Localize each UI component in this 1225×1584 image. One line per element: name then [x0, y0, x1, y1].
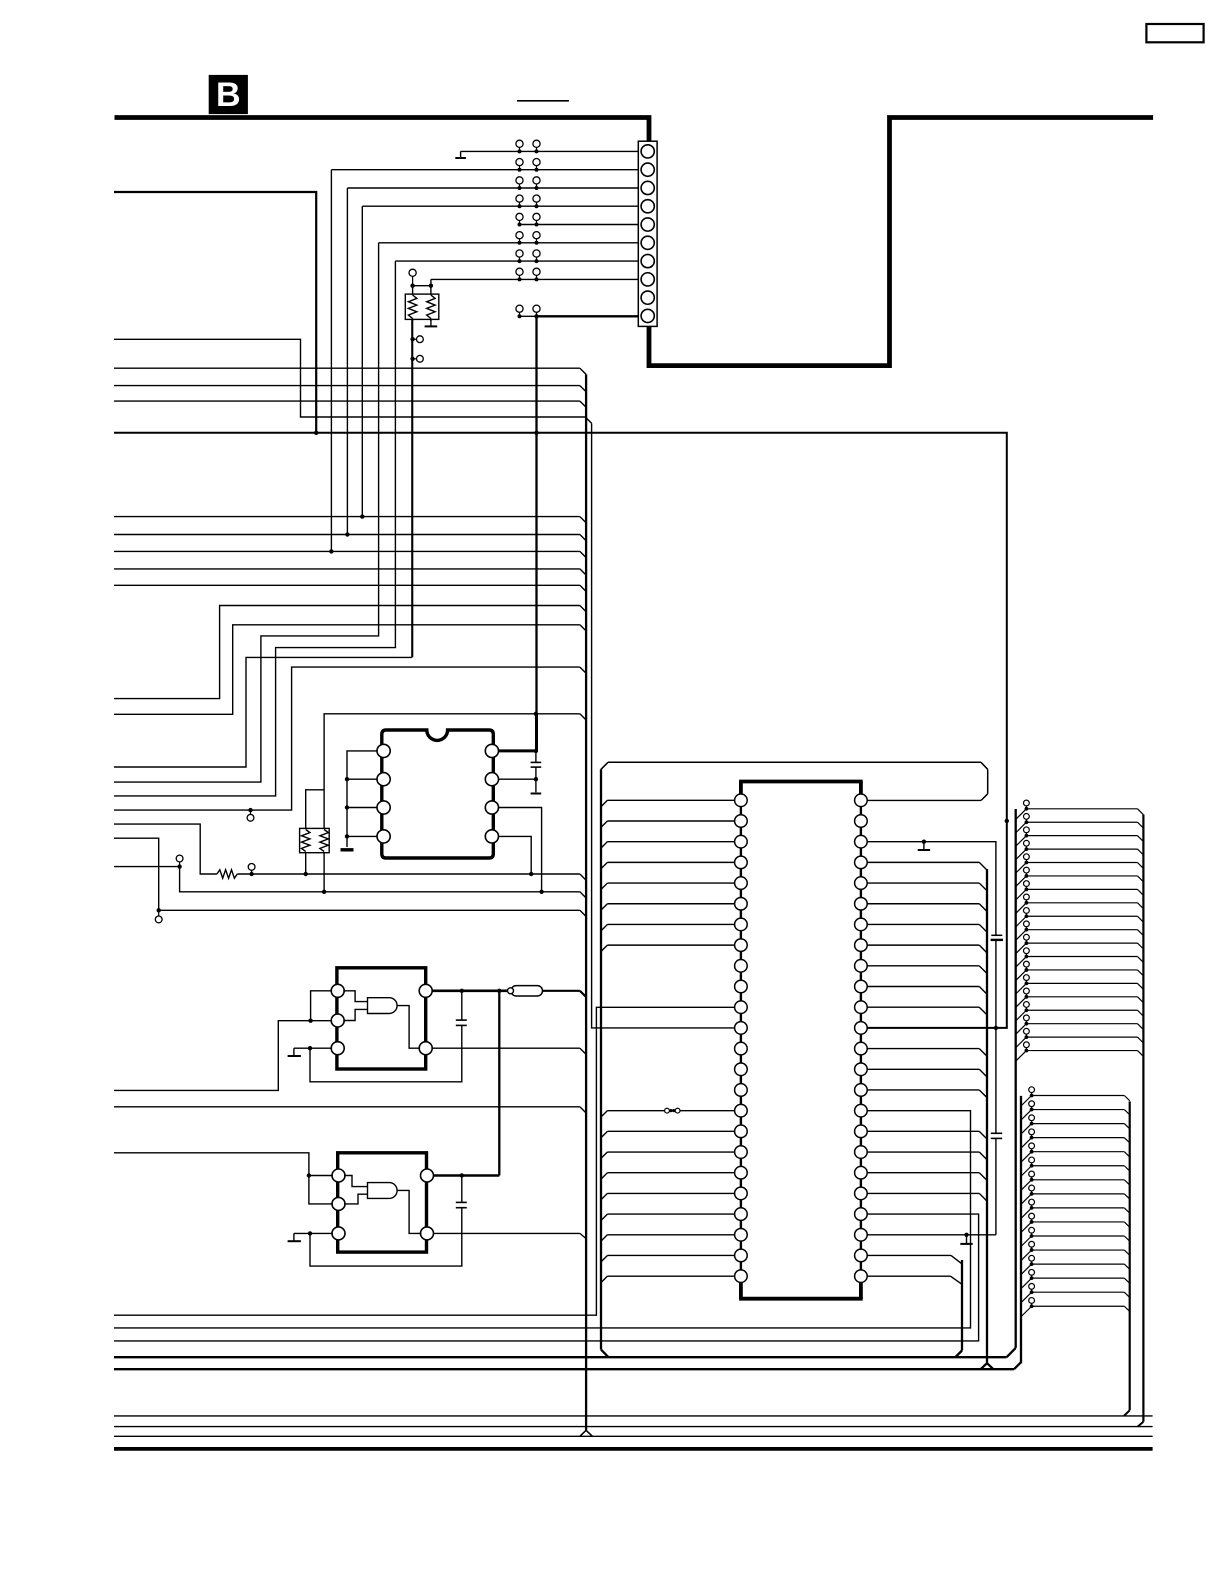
junction dot medium wire: [314, 431, 318, 435]
wire row 5 to CN1: [520, 224, 639, 226]
connector CN1 pin 2: [641, 163, 654, 176]
wire L8 bevel: [580, 569, 586, 575]
wire V536 to C1: [535, 751, 537, 763]
RA link bar: [413, 285, 431, 287]
ic U4 pin 38: [855, 1001, 868, 1014]
wire L1 bevel: [585, 417, 591, 423]
wire U4 pin7 feed: [601, 924, 735, 930]
resistor RA-2 lead2: [430, 319, 432, 322]
bus bottom B: [114, 1368, 1014, 1370]
header JP1 pin 7: [1016, 881, 1144, 900]
header JP2 pin 11: [1021, 1227, 1130, 1246]
junction dot U2 feed: [308, 1019, 312, 1023]
ic U4 pin 2: [735, 815, 748, 828]
header JP2 pin 13: [1021, 1255, 1130, 1274]
ic U4 pin 1: [735, 794, 748, 807]
junction dot LF tp: [157, 908, 161, 912]
ic U4 pin 35: [855, 1063, 868, 1076]
test point pair row 3: [516, 177, 540, 190]
wire FB1 out thick: [543, 990, 580, 992]
ic U4 pin 33: [855, 1104, 868, 1117]
wire L2: [114, 367, 580, 369]
wire LA bevel: [580, 606, 586, 612]
ic U4 pin 22: [735, 1228, 748, 1241]
connector CN1 body: [638, 141, 657, 326]
header JP1 pin 6: [1016, 867, 1144, 886]
bus trunk2 pin12L net: [592, 423, 735, 1028]
wire V536 upper: [535, 316, 537, 714]
op-amp U1 pin 2: [377, 773, 390, 786]
resistor RA-2: [427, 295, 435, 319]
wire C5 lower: [995, 1138, 997, 1234]
junction dot U2 pin3: [308, 1046, 312, 1050]
wire U4 pin29: [867, 1193, 987, 1201]
resonator X1 symbol: [368, 998, 398, 1014]
wire C4 lower: [995, 1028, 997, 1133]
oscillator U2 pin4: [419, 1042, 432, 1055]
wire L3 bevel: [580, 386, 586, 392]
ic U4 pin 30: [855, 1166, 868, 1179]
wire L5 bevel: [580, 517, 586, 523]
bus bottom A: [114, 1356, 1007, 1358]
wire U3 pin2 bracket: [309, 1176, 333, 1204]
ic U4 pin 44: [855, 877, 868, 890]
ic U4 pin 3: [735, 835, 748, 848]
ic U4 bottom stub left: [739, 1282, 743, 1298]
wire LC bevel: [580, 667, 586, 673]
wire U4 pin16 feed: [601, 1111, 735, 1117]
ic U4 bottom stub right: [859, 1282, 863, 1298]
wire RA leg join: [411, 319, 413, 657]
wire RC right leg down: [323, 853, 325, 892]
header JP1 pin 1: [1016, 800, 1144, 819]
header JP1 pin 5: [1016, 854, 1144, 873]
oscillator U2 body: [337, 968, 426, 1069]
ic U4 pin 26: [855, 1249, 868, 1262]
bus outline top: [608, 761, 981, 763]
bottom line 3 chevron: [580, 1430, 593, 1436]
ic U4 pin 47: [855, 815, 868, 828]
oscillator U3 pin3: [332, 1227, 345, 1240]
wire U1 pin3 stub: [347, 807, 377, 809]
wire U4 pin44: [867, 883, 987, 891]
wire U3 pin3 stub: [294, 1232, 333, 1234]
wire U2 pin1 to X1: [343, 991, 367, 1002]
wire row 6 to CN1: [379, 242, 639, 244]
wire C2 up: [461, 991, 463, 1020]
wire U3 pin4 bevel: [580, 1233, 587, 1239]
op-amp U1 pin 4: [377, 830, 390, 843]
wire U4 pin27: [867, 1234, 996, 1236]
op-amp U1 pin 3: [377, 801, 390, 814]
wire LC step: [114, 667, 580, 810]
test point pair row 7: [516, 250, 540, 263]
connector CN1 pin 1: [641, 145, 654, 158]
wire U4 pin39: [867, 987, 987, 995]
wire LB bevel: [580, 625, 586, 631]
wire L5: [114, 516, 580, 518]
ic U4 pin 15: [735, 1084, 748, 1097]
connector CN1 pin 4: [641, 200, 654, 213]
wire U4 pin4 feed: [601, 862, 735, 868]
bus trunk3 left edge: [600, 769, 602, 1349]
wire U4 pin20 feed: [601, 1193, 735, 1199]
bus trunk g2-right: [1129, 1101, 1131, 1410]
wire L8: [114, 568, 580, 570]
wire row 1 to CN1: [461, 150, 639, 152]
test point pair row 6: [516, 232, 540, 245]
capacitor C2: [456, 1020, 467, 1025]
test point pair row 5: [516, 213, 540, 226]
wire U4 pin24 feed: [601, 1276, 735, 1282]
wire U4 pin3 feed: [601, 842, 735, 848]
ic U4 pin 10: [735, 980, 748, 993]
wire U4 pin43: [867, 904, 987, 912]
wire U3 pin1 to X2: [344, 1176, 367, 1187]
wire C3 up: [461, 1176, 463, 1203]
header JP2 pin 2: [1021, 1101, 1130, 1120]
wire U4 pin36: [867, 1049, 987, 1057]
wire LD: [114, 824, 217, 874]
wire row6 path: [114, 243, 379, 782]
wire U4 pin38: [867, 1007, 987, 1015]
resistor RA-2 lead: [430, 286, 432, 295]
bottom line 1 merge: [1124, 1410, 1130, 1416]
header JP1 pin 11: [1016, 934, 1144, 953]
wire X2 out: [397, 1190, 421, 1233]
capacitor C3: [456, 1202, 467, 1207]
wire U2 pin3 bracket: [310, 1025, 462, 1081]
wire LG: [114, 1106, 580, 1108]
bottom line 2: [114, 1426, 1153, 1428]
junction dot pin27 gnd: [964, 1233, 968, 1237]
ic U4 pin 6: [735, 897, 748, 910]
test point circle LE: [176, 855, 183, 867]
wire L7 bevel: [580, 551, 586, 557]
header JP2 pin 4: [1021, 1129, 1130, 1148]
ic U4 pin 28: [855, 1208, 868, 1221]
header JP2 pin 3: [1021, 1115, 1130, 1134]
junction dot RA leg a: [410, 337, 414, 341]
ic U4 pin 7: [735, 918, 748, 931]
op-amp U1 body: [382, 730, 494, 858]
wire L6: [114, 534, 580, 536]
ic U4 pin 46: [855, 835, 868, 848]
header JP2 pin 8: [1021, 1185, 1130, 1204]
junction dot RA right: [429, 284, 433, 288]
wire L7: [114, 550, 580, 552]
oscillator U2 pin1: [331, 984, 344, 997]
junction dot RA leg b: [410, 357, 414, 361]
resistor RB: [217, 870, 237, 878]
ic U4 pin 4: [735, 856, 748, 869]
junction dot U3 pin3: [308, 1231, 312, 1235]
junction dot LD pin4: [529, 872, 533, 876]
header JP1 pin 3: [1016, 827, 1144, 846]
wire U1 pin4 stub: [347, 835, 377, 837]
svg-text:B: B: [216, 76, 241, 114]
wire U4 pin42: [867, 924, 987, 932]
wire row4 corner down: [361, 206, 363, 516]
wire row 10 thick to CN1: [537, 315, 639, 317]
op-amp U1 pin 7: [485, 773, 498, 786]
wire row 7 to CN1: [395, 260, 638, 262]
wire RC right bevel: [580, 714, 586, 720]
wire U3 pin6 thick: [434, 1174, 500, 1177]
wire L9: [114, 584, 580, 586]
oscillator U2 pin6: [419, 984, 432, 997]
junction dot LE RC: [322, 890, 326, 894]
ground C1: [531, 793, 542, 795]
wire U4 pin18 feed: [601, 1152, 735, 1158]
wire U4 pin28: [114, 1214, 979, 1341]
ic U4 pin 23: [735, 1249, 748, 1262]
ic U4 pin 37: [855, 1022, 868, 1035]
connector CN1 pin 10: [641, 309, 654, 322]
ic U4 top stub right: [859, 782, 863, 795]
thick bus B wire: [115, 118, 1154, 366]
wire U1 pin6: [498, 808, 541, 892]
ic U4 pin 36: [855, 1042, 868, 1055]
wire U4 pin45: [867, 862, 987, 870]
wire LB step: [114, 625, 580, 715]
wire U4 pin40: [867, 966, 987, 974]
ic U4 body: [741, 782, 861, 1299]
wire U2 pin4 bevel: [580, 1048, 586, 1054]
reference dash: [517, 100, 569, 102]
wire RC left leg down: [305, 853, 307, 874]
ic U4 pin 16: [735, 1104, 748, 1117]
ic U4 pin 5: [735, 877, 748, 890]
op-amp U1 pin 6: [485, 801, 498, 814]
oscillator U3 pin4: [421, 1227, 434, 1240]
bus trunk1: [585, 374, 587, 1430]
wire L3: [114, 385, 580, 387]
ic U4 pin 48: [855, 794, 868, 807]
wire LD cont: [237, 873, 580, 875]
resistor RC box: [300, 828, 330, 852]
wire U4 pin8 feed: [601, 945, 735, 951]
capacitor C5: [991, 1133, 1002, 1138]
test point circle LD: [248, 864, 255, 875]
oscillator U2 pin2: [331, 1014, 344, 1027]
ic U4 pin 12: [735, 1022, 748, 1035]
header JP2 pin 9: [1021, 1199, 1130, 1218]
wire LF bevel: [580, 910, 586, 916]
header JP1 pin 14: [1016, 975, 1144, 994]
test point pair row 1: [516, 140, 540, 153]
connector CN1 pin 9: [641, 291, 654, 304]
junction dot LE tp: [177, 864, 181, 868]
junction dot U1 pin2: [345, 777, 349, 781]
wire U2 feed: [114, 1021, 332, 1091]
resistor RA box: [405, 294, 439, 319]
wire U1 pin2 stub: [347, 778, 377, 780]
wire RC right leg up: [324, 714, 536, 829]
wire U4 pin1R: [867, 799, 981, 801]
wire U4 pin6 feed: [601, 904, 735, 910]
wire U3 pin4: [433, 1232, 580, 1234]
wire U4 pin30: [867, 1173, 987, 1181]
resonator X2 symbol: [368, 1183, 398, 1199]
page label B box: [209, 75, 248, 114]
bottom line 2 merge: [1138, 1422, 1144, 1427]
wire U4 pin26: [867, 1255, 962, 1263]
header JP1 pin 9: [1016, 908, 1144, 927]
header JP2 pin 16: [1021, 1298, 1130, 1317]
junction dot row4: [360, 514, 364, 518]
test point circle RA: [409, 269, 416, 286]
junction dot U1 pin8: [534, 749, 538, 753]
header JP1 pin 10: [1016, 921, 1144, 940]
junction dot U3 feed: [307, 1173, 311, 1177]
wire U4 pin46: [867, 842, 996, 936]
header JP2 pin 14: [1021, 1269, 1130, 1288]
wire M1 to RA: [114, 657, 412, 767]
wire row2 corner down: [330, 170, 332, 552]
ic U4 pin 39: [855, 980, 868, 993]
junction dot row3: [345, 532, 349, 536]
wire U4 pin5 feed: [601, 883, 735, 889]
ic U4 top edge: [739, 780, 863, 784]
wire L6 bevel: [580, 535, 586, 541]
wire row7 path: [114, 261, 395, 796]
wire L4 bevel: [580, 401, 586, 407]
ic U4 pin 40: [855, 960, 868, 973]
bus trunk3 bottom chamfer: [601, 1350, 608, 1357]
wire RC right cont: [536, 713, 580, 715]
ground row 1: [455, 151, 466, 158]
page reference box: [1146, 24, 1203, 42]
ic U4 pin 11: [735, 1001, 748, 1014]
wire row 10 thin segment: [520, 315, 537, 317]
wire pin11L net: [114, 1007, 735, 1315]
jumper J1 on pin16 wire: [665, 1108, 680, 1113]
header JP1 pin 18: [1016, 1028, 1144, 1047]
resistor RA-1 lead2: [412, 319, 414, 322]
ic U4 pin 31: [855, 1146, 868, 1159]
ic U4 pin 32: [855, 1125, 868, 1138]
bus bottom B chamfer: [1014, 1362, 1021, 1369]
ic U4 pin 24: [735, 1270, 748, 1283]
wire U4 pin1 feed: [601, 800, 735, 806]
junction dot U1 pin4: [345, 834, 349, 838]
header JP1 pin 17: [1016, 1015, 1144, 1034]
junction dot V536 box line: [534, 431, 538, 435]
junction dot LD RC: [304, 872, 308, 876]
wire U4 pin33: [114, 1111, 971, 1328]
ic U4 pin 19: [735, 1166, 748, 1179]
header JP1 pin 2: [1016, 814, 1144, 833]
wire U3 pin2 to X2: [344, 1194, 367, 1204]
wire U4 pin17 feed: [601, 1131, 735, 1137]
ic U4 pin 29: [855, 1187, 868, 1200]
ic U4 pin 42: [855, 918, 868, 931]
header JP2 pin 15: [1021, 1284, 1130, 1303]
ground U1: [341, 848, 354, 851]
junction dot LE pin3: [539, 890, 543, 894]
junction dot LC: [248, 808, 252, 812]
junction dot RA left: [410, 284, 414, 288]
test point pair row 4: [516, 195, 540, 208]
resistor RC-1: [302, 830, 310, 852]
wire LE bevel: [580, 892, 586, 898]
wire U4 pin23 feed: [601, 1255, 735, 1261]
wire V536 mid: [535, 714, 538, 751]
header JP2 pin 10: [1021, 1213, 1130, 1232]
wire FB1 bevel: [580, 991, 586, 997]
wire LE: [114, 867, 580, 892]
bus trunk g1-right: [1142, 815, 1144, 1422]
wire row 2 to CN1: [331, 169, 638, 171]
ground U3: [288, 1233, 301, 1241]
wire U4 pin34: [867, 1090, 987, 1098]
wire C1 gnd stub: [535, 779, 537, 792]
ic U4 pin 8: [735, 939, 748, 952]
op-amp U1 pin 5: [485, 830, 498, 843]
oscillator U3 pin1: [332, 1169, 345, 1182]
wire row8 corner to RA: [430, 279, 432, 285]
capacitor C1: [531, 762, 542, 767]
oscillator U3 pin6: [421, 1169, 434, 1182]
ic U4 pin 43: [855, 897, 868, 910]
wire U2 pin4: [432, 1047, 580, 1049]
wire U4 pin41: [867, 945, 987, 953]
wire LF: [114, 838, 580, 910]
oscillator U3 pin2: [332, 1197, 345, 1210]
ic U4 pin 20: [735, 1187, 748, 1200]
op-amp U1 pin 1: [377, 744, 390, 757]
wire U4 pin35: [867, 1069, 987, 1077]
ground pin27: [960, 1235, 972, 1244]
junction dot U1 pin7: [534, 777, 538, 781]
connector CN1 pin 7: [641, 254, 654, 267]
wire U2 pin2 to X1: [343, 1009, 367, 1020]
wire U4 pin22 feed: [601, 1235, 735, 1241]
bus trunk g1-left: [1015, 809, 1017, 1348]
junction dot U2 out: [497, 989, 501, 993]
connector CN1 pin 8: [641, 273, 654, 286]
bus outline right edge: [987, 769, 989, 794]
ground RA: [425, 319, 438, 326]
oscillator U2 pin3: [331, 1042, 344, 1055]
wire L4: [114, 400, 580, 402]
junction dot bus box pin2R: [1005, 819, 1009, 823]
ic U4 top stub left: [739, 782, 743, 795]
bus v987: [986, 869, 988, 1363]
bottom line 3: [114, 1435, 1153, 1437]
ic U4 pin 21: [735, 1208, 748, 1221]
header JP1 pin 8: [1016, 894, 1144, 913]
ground U2: [288, 1048, 301, 1056]
wire LA step: [114, 606, 580, 699]
header JP2 pin 1: [1021, 1087, 1130, 1106]
medium wire: [114, 192, 316, 433]
wire C1 down: [535, 767, 537, 779]
ic U4 pin 34: [855, 1084, 868, 1097]
wire row 4 to CN1: [362, 205, 638, 207]
bus outline right chamfer: [981, 762, 988, 769]
test point pair row 8: [516, 268, 540, 281]
ic U4 pin 25: [855, 1270, 868, 1283]
wire U4 pin32: [867, 1131, 987, 1139]
test point circle LF: [155, 910, 162, 923]
wire row 8 to CN1: [431, 278, 638, 280]
header JP2 pin 7: [1021, 1171, 1130, 1190]
junction dot U1 pin3: [345, 805, 349, 809]
header JP2 pin 12: [1021, 1241, 1130, 1260]
wire L1 to pin12L net: [114, 339, 585, 417]
